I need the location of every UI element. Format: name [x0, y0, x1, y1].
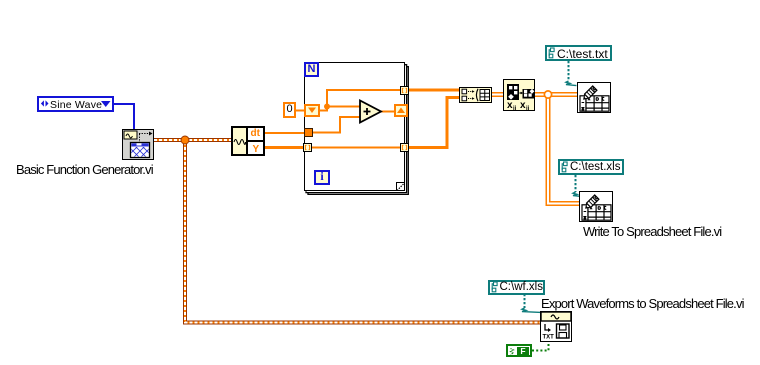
svg-text:ij: ij [513, 106, 517, 111]
svg-text:TXT: TXT [543, 335, 555, 341]
svg-text:ji: ji [525, 106, 530, 111]
